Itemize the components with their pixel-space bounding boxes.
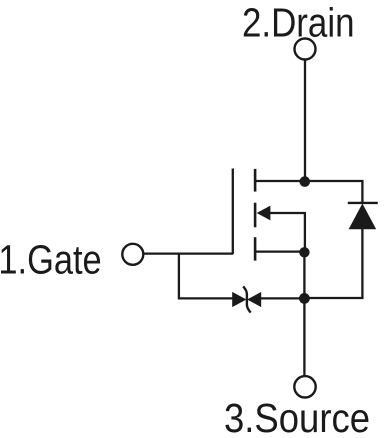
zener diode ZD1: center bar with bent ends — [243, 286, 251, 312]
zener diode ZD1: right anode triangle — [247, 292, 261, 307]
transistor Q1: channel dash (drain segment) — [254, 169, 257, 192]
node: source junction — [299, 247, 309, 257]
wire: gate branch down to protection zener — [179, 254, 233, 299]
wire: source node to bottom node to source terminal — [303, 252, 305, 375]
transistor Q1: channel dash (body segment) — [254, 203, 257, 228]
node: drain junction — [300, 176, 311, 187]
node: bottom source junction — [299, 293, 310, 304]
wire: body diode anode down and left to bottom node — [305, 228, 362, 298]
source terminal (pin 3) — [294, 376, 315, 397]
diode D1: anode triangle (pointing up) — [349, 204, 377, 230]
zener diode ZD1 (gate-source protection, bidirectional): left anode triangle — [232, 292, 246, 307]
svg-text:1.Gate: 1.Gate — [0, 237, 102, 283]
wire: drain node to MOSFET drain — [255, 180, 305, 182]
transistor Q1: channel dash (source segment) — [254, 237, 257, 260]
drain terminal (pin 2) — [295, 39, 316, 60]
transistor Q1 N-channel MOSFET: gate electrode bar — [232, 169, 234, 255]
gate terminal (pin 1) — [122, 244, 143, 265]
wire: drain node to body diode branch — [305, 181, 362, 203]
wire: drain terminal to drain node — [304, 60, 306, 182]
wire: zener to source bottom node — [261, 297, 305, 299]
svg-text:3.Source: 3.Source — [224, 395, 370, 438]
wire: body connection to right vertical — [269, 213, 305, 252]
diode D1 (body diode): cathode bar — [348, 202, 378, 204]
svg-text:2.Drain: 2.Drain — [242, 0, 355, 46]
wire: MOSFET source to source node — [255, 250, 304, 252]
wire: gate terminal to gate bar — [144, 252, 234, 254]
transistor Q1: body arrow (pointing to channel) — [257, 206, 271, 221]
